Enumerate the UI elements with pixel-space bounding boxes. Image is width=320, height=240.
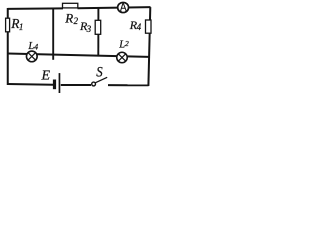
wire middle (lamp wire) [8,54,149,57]
lamp L2 [117,52,128,63]
wire left [7,8,9,85]
resistor R1 [6,18,10,32]
battery E positive plate (long thin) [59,73,61,93]
svg-text:E: E [41,69,51,84]
svg-text:4: 4 [34,43,38,52]
resistor R4 [146,20,152,33]
resistor R3 [95,20,101,34]
svg-text:1: 1 [19,22,24,32]
wire bottom left segment [8,83,53,86]
wire branch at x=53 with stub below middle wire [52,9,54,60]
wire top right of R2 [78,7,151,8]
wire R3 branch [97,8,99,56]
lamp L4 [26,51,37,62]
svg-text:R: R [64,10,73,25]
switch S lever [96,77,108,82]
svg-text:S: S [96,64,103,80]
switch S pivot [92,82,96,86]
battery E negative plate (short thick) [53,80,56,90]
ammeter A [118,2,129,12]
svg-text:4: 4 [137,22,142,32]
wire top [8,7,63,10]
svg-text:2: 2 [125,39,129,48]
svg-text:2: 2 [74,16,79,26]
svg-text:3: 3 [86,24,92,34]
wire right [148,7,150,86]
wire bottom right segment [108,84,149,86]
resistor R2 [63,3,78,8]
wire bottom middle segment [61,84,91,86]
